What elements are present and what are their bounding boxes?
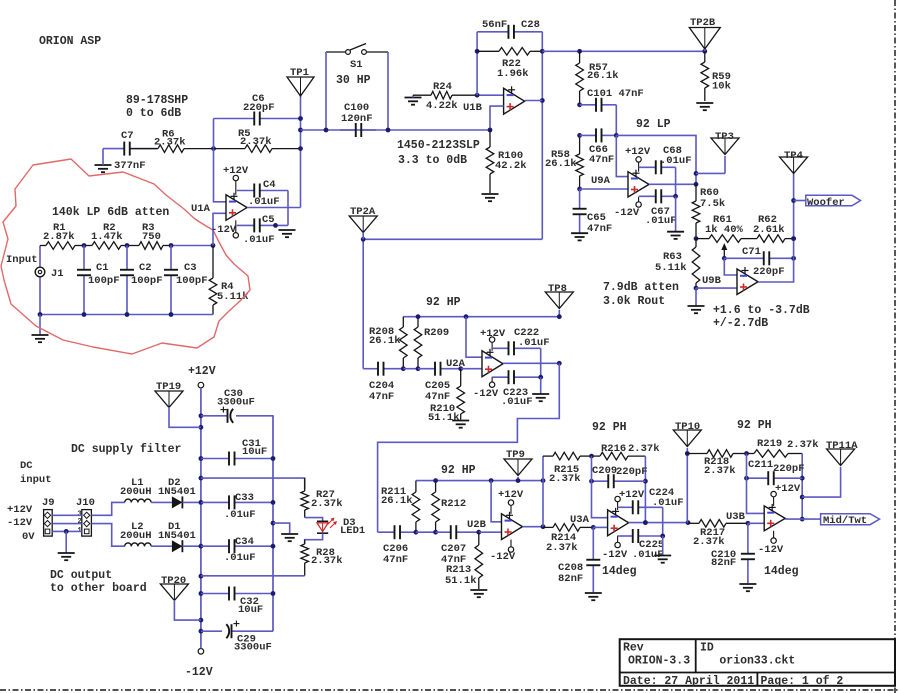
capacitor C222 (492, 327, 549, 355)
svg-text:C34: C34 (235, 536, 254, 548)
svg-text:14deg: 14deg (602, 565, 637, 578)
svg-text:Page: 1 of 2: Page: 1 of 2 (761, 675, 844, 688)
svg-text:750: 750 (142, 231, 161, 243)
label Input (6, 254, 38, 266)
wire C7 ground stem (102, 149, 104, 165)
capacitor C208 (558, 527, 600, 592)
svg-text:Date: 27 April 2011: Date: 27 April 2011 (623, 675, 754, 688)
svg-text:+12V: +12V (775, 483, 801, 495)
connector J10 (76, 497, 95, 536)
diode D1 (158, 521, 196, 552)
inductor L1 (120, 477, 152, 502)
wire +12V column (200, 388, 202, 649)
node TP3 tap (694, 171, 699, 176)
svg-text:200uH: 200uH (120, 530, 152, 542)
svg-text:2.37k: 2.37k (787, 439, 819, 451)
svg-text:R209: R209 (424, 327, 449, 339)
power pin U2A -12V (473, 377, 499, 400)
node C66 left (577, 133, 582, 138)
svg-text:.01uF: .01uF (248, 196, 280, 208)
node U2A plus (458, 366, 463, 371)
junction +12 dist (199, 476, 204, 481)
svg-text:10uF: 10uF (242, 446, 267, 458)
resistor R208 (369, 317, 407, 369)
red hand-drawn highlight circle (1, 159, 250, 354)
label 92 HP second (441, 464, 476, 477)
svg-text:J9: J9 (42, 497, 55, 509)
svg-text:-12V: -12V (185, 666, 213, 679)
node C209 left (589, 479, 594, 484)
resistor R217 (688, 520, 748, 549)
wire R24 gnd stem (412, 95, 414, 97)
svg-text:C71: C71 (742, 246, 761, 258)
node C223 right (538, 375, 543, 380)
resistor R4 (209, 246, 248, 315)
node U9B plus (694, 286, 699, 291)
ground U2A decoupling ground (532, 377, 549, 401)
test point TP20 (160, 575, 188, 601)
label +1.6 to -3.7dB (713, 304, 810, 317)
diode D2 (158, 477, 196, 508)
node C225 right (660, 534, 665, 539)
junction C1 bottom (82, 312, 87, 317)
ground U1A decoupling ground (279, 230, 296, 237)
svg-text:C2: C2 (139, 262, 152, 274)
title ORION ASP (39, 35, 101, 48)
capacitor C1 (77, 246, 120, 315)
power pin U1A -12V (211, 220, 239, 238)
svg-text:U2B: U2B (467, 519, 487, 531)
capacitor C205 (418, 362, 461, 403)
svg-text:30 HP: 30 HP (336, 74, 371, 87)
svg-text:orion33.ckt: orion33.ckt (719, 654, 795, 667)
wire U3B minus (747, 454, 765, 514)
junction U2A minus top (464, 314, 469, 319)
wire U3B plus (748, 522, 764, 524)
output tag Mid/Twt (802, 514, 879, 527)
test point TP19 (155, 381, 183, 408)
node C206-R211 (414, 530, 419, 535)
svg-text:TP2A: TP2A (350, 206, 376, 218)
label +12V rail (7, 504, 33, 516)
svg-text:92 HP: 92 HP (426, 296, 461, 309)
capacitor C210 (711, 523, 755, 583)
title block Page (761, 675, 844, 688)
svg-text:R219: R219 (757, 438, 782, 450)
capacitor C32 (201, 587, 273, 617)
node R62 right (791, 236, 796, 241)
wire right column (272, 416, 274, 631)
power pin U2B -12V (490, 540, 516, 564)
junction S1 right (386, 128, 391, 133)
power pin U2B +12V (498, 489, 524, 514)
ground R63 ground (688, 288, 705, 313)
label DC (20, 460, 33, 472)
svg-text:3300uF: 3300uF (217, 397, 255, 409)
svg-text:2: 2 (78, 518, 82, 526)
svg-text:.01uF: .01uF (645, 215, 677, 227)
capacitor C33 (201, 492, 273, 521)
svg-text:0 to 6dB: 0 to 6dB (126, 107, 181, 120)
power pin U3A -12V (602, 536, 628, 561)
wire J10 to L1 (91, 502, 124, 515)
ground R213 ground (470, 590, 487, 597)
power pin U3B +12V (771, 483, 801, 506)
power pin U2A +12V (480, 328, 506, 351)
wire U1B plus (490, 106, 504, 130)
svg-text:ID: ID (700, 642, 714, 655)
resistor R214 (543, 524, 593, 554)
svg-text:.01uF: .01uF (518, 337, 550, 349)
svg-text:1.47k: 1.47k (91, 231, 123, 243)
power pin U3B -12V (758, 531, 784, 556)
wire TP8 column (558, 310, 560, 317)
terminal +12V top (188, 365, 216, 388)
svg-text:92 PH: 92 PH (592, 421, 627, 434)
svg-text:2.37k: 2.37k (546, 542, 578, 554)
capacitor C30 (201, 388, 274, 423)
junction right column (271, 544, 276, 549)
power pin U1A +12V (223, 165, 249, 195)
svg-text:26.1k: 26.1k (545, 158, 577, 170)
svg-text:51.1k: 51.1k (428, 412, 460, 424)
svg-text:-12V: -12V (602, 549, 628, 561)
wire U1B minus (477, 94, 504, 96)
node R6-R5-C6 (211, 146, 216, 151)
capacitor C100 (340, 102, 376, 137)
node C211 left (744, 476, 749, 481)
wire C68 drop (675, 167, 677, 196)
switch S1 (326, 44, 388, 88)
test point TP9 (504, 449, 532, 476)
svg-text:-12V: -12V (7, 517, 33, 529)
wire J9-J10 0V (52, 530, 82, 532)
wire J10 to L2 (91, 524, 124, 547)
svg-text:C1: C1 (96, 262, 109, 274)
junction C32 left (199, 591, 204, 596)
svg-text:51.1k: 51.1k (445, 575, 477, 587)
wire output bus (542, 50, 705, 52)
label 14deg first (602, 565, 637, 578)
capacitor C3 (164, 246, 208, 315)
node R212 bottom (433, 530, 438, 535)
node main out (298, 128, 303, 133)
ground C210 ground (739, 584, 756, 591)
svg-text:+12V: +12V (223, 165, 249, 177)
svg-text:2.37k: 2.37k (240, 136, 272, 148)
capacitor C67 (639, 189, 677, 227)
label 92 PH second (737, 419, 772, 432)
title block Rev (623, 642, 644, 655)
svg-text:47nF: 47nF (369, 391, 394, 403)
label 89-178SHP (126, 94, 188, 107)
title block ORION-3.3 (628, 654, 690, 667)
svg-text:1N5401: 1N5401 (158, 486, 196, 498)
node TP9 tap (516, 478, 521, 483)
label +/-2.7dB (713, 317, 768, 330)
node U2B plus (476, 530, 481, 535)
svg-text:47nF: 47nF (587, 223, 612, 235)
wire U1B output (525, 100, 543, 102)
output tag Woofer (794, 195, 861, 209)
svg-text:C4: C4 (263, 179, 276, 191)
resistor R2 (84, 222, 127, 249)
svg-text:TP20: TP20 (161, 575, 186, 587)
svg-text:42.2k: 42.2k (495, 160, 527, 172)
wire TP2A stem (362, 233, 364, 240)
label 0V rail (22, 531, 35, 543)
junction C5 output (273, 223, 278, 228)
node R60 bottom (694, 236, 699, 241)
power pin U3A +12V (615, 489, 645, 510)
wire C204 to C205 (403, 368, 418, 370)
ground C65 ground (571, 233, 588, 240)
label 3.3 to 0dB (398, 154, 467, 167)
svg-text:Woofer: Woofer (807, 197, 845, 209)
wire bottom rail (40, 314, 213, 316)
svg-text:TP19: TP19 (156, 381, 181, 393)
svg-text:TP10: TP10 (675, 421, 700, 433)
svg-text:R24: R24 (433, 81, 452, 93)
svg-text:R212: R212 (441, 498, 466, 510)
wire TP19 link (169, 407, 201, 427)
capacitor C71 (724, 246, 793, 278)
wire U9A output (649, 183, 696, 185)
capacitor C223 (492, 370, 541, 408)
wire feedback top U2B (416, 480, 543, 482)
junction U2B minus top (489, 478, 494, 483)
capacitor C224 (618, 487, 684, 514)
test point TP2B (689, 17, 720, 49)
op-amp U2A (446, 349, 503, 377)
wire D2 to node (182, 501, 201, 503)
wire U1B out column (541, 32, 543, 240)
svg-text:TP2B: TP2B (690, 17, 716, 29)
page border bottom edge (0, 689, 900, 691)
power pin U9A +12V (625, 146, 651, 172)
junction R22 right (540, 49, 545, 54)
power pin U9A -12V (614, 197, 641, 219)
capacitor C29 (201, 621, 273, 654)
resistor R6 (131, 129, 214, 153)
capacitor C31 (201, 438, 273, 466)
svg-text:140k LP 6dB atten: 140k LP 6dB atten (52, 206, 169, 219)
wire C224 drop (662, 507, 664, 536)
svg-text:+12V: +12V (625, 146, 651, 158)
label -12V rail (7, 517, 33, 529)
resistor R213 (445, 532, 483, 589)
svg-text:+12V: +12V (480, 328, 506, 340)
junction S1 left (324, 128, 329, 133)
svg-text:7.9dB atten: 7.9dB atten (603, 281, 679, 294)
wire TP3 stem (724, 156, 726, 173)
wire D1 to node (182, 545, 201, 547)
wire plus input U1A (213, 213, 226, 245)
node R216 join (643, 520, 648, 525)
junction C3 bottom (169, 312, 174, 317)
wire U9A plus (580, 188, 628, 190)
resistor R210 (428, 369, 465, 424)
wire L2 to D1 (151, 545, 172, 547)
node C71 right (791, 256, 796, 261)
svg-text:ORION-3.3: ORION-3.3 (628, 654, 690, 667)
label 140k LP 6dB atten (52, 206, 169, 219)
resistor R22 (477, 48, 542, 81)
node R2-R3 (125, 243, 130, 248)
wire C206 to C207 (416, 531, 436, 533)
wire R27 to LED (305, 518, 323, 522)
node R215-R216 (589, 454, 594, 459)
svg-text:1450-2123SLP: 1450-2123SLP (397, 139, 480, 152)
resistor R219 (747, 438, 819, 457)
node riser top (541, 478, 546, 483)
node R209 bottom (416, 366, 421, 371)
svg-text:-12V: -12V (211, 224, 237, 236)
node C67 right (673, 194, 678, 199)
wire U2B minus (491, 481, 501, 522)
node TP11A tap (800, 495, 805, 500)
svg-text:2.87k: 2.87k (43, 231, 75, 243)
wire +12 dist (201, 478, 305, 489)
node C209 right (643, 479, 648, 484)
node R57 top (577, 49, 582, 54)
page border right edge (894, 0, 896, 693)
ground U3A decoupling ground (654, 536, 671, 563)
svg-text:7.5k: 7.5k (700, 198, 725, 210)
svg-text:R216: R216 (601, 443, 626, 455)
wire U2A out to stage2 (378, 363, 560, 532)
wire L1 to D2 (151, 501, 172, 503)
test point TP11A (826, 440, 858, 466)
svg-text:U1A: U1A (191, 203, 211, 215)
resistor R58 (545, 135, 583, 189)
junction R212 top (433, 478, 438, 483)
svg-text:C3: C3 (184, 262, 197, 274)
svg-text:10uF: 10uF (238, 604, 263, 616)
label DC supply filter (71, 443, 182, 456)
node R24-C28 (475, 93, 480, 98)
node U2B output (541, 524, 546, 529)
ground R59 ground (696, 103, 713, 110)
title block ID (700, 642, 714, 655)
title block frame (620, 639, 895, 686)
svg-text:2.37k: 2.37k (693, 536, 725, 548)
node C211 right (800, 476, 805, 481)
node 0V gnd tap (64, 529, 69, 534)
wire R216 drop (644, 456, 646, 522)
resistor R24 (413, 81, 477, 112)
capacitor C207 (436, 525, 479, 566)
node U3B plus (746, 521, 751, 526)
svg-text:2.37k: 2.37k (549, 473, 581, 485)
resistor R27 (301, 478, 343, 517)
node C66 right (614, 133, 619, 138)
svg-text:U3A: U3A (570, 514, 590, 526)
svg-text:220pF: 220pF (753, 266, 785, 278)
capacitor C66 (580, 128, 617, 166)
svg-text:26.1k: 26.1k (369, 335, 401, 347)
wire TP2A link (363, 239, 542, 368)
svg-text:120nF: 120nF (341, 113, 373, 125)
wire TP11A link (802, 467, 840, 497)
svg-text:100pF: 100pF (88, 275, 120, 287)
svg-text:2.37k: 2.37k (704, 465, 736, 477)
svg-text:.01uF: .01uF (652, 497, 684, 509)
svg-text:82nF: 82nF (558, 573, 583, 585)
wire R219 drop (801, 454, 803, 520)
node U3B output (800, 517, 805, 522)
svg-text:C101 47nF: C101 47nF (587, 88, 644, 100)
capacitor C209 (592, 465, 648, 488)
resistor R1 (40, 222, 84, 249)
svg-text:92 PH: 92 PH (737, 419, 772, 432)
svg-text:14deg: 14deg (764, 565, 799, 578)
node R218 tap (685, 451, 690, 456)
svg-text:82nF: 82nF (711, 557, 736, 569)
wire U2A output (503, 362, 559, 364)
wire U2B plus (479, 531, 502, 533)
capacitor C28 (477, 19, 542, 39)
node R3-C3 (169, 243, 174, 248)
resistor R60 (692, 184, 725, 238)
junction C2 bottom (125, 312, 130, 317)
op-amp U3B (726, 504, 785, 531)
junction right column (271, 591, 276, 596)
capacitor C211 (747, 459, 805, 485)
wire C222 drop (540, 348, 542, 377)
wire U3A output (629, 522, 688, 524)
junction right column (271, 521, 276, 526)
title block Date (623, 675, 754, 688)
label 7.9dB atten (603, 281, 679, 294)
svg-text:-12V: -12V (490, 551, 516, 563)
svg-text:4.22k: 4.22k (426, 100, 458, 112)
svg-text:10k: 10k (712, 81, 731, 93)
svg-text:DC output: DC output (50, 569, 112, 582)
wire feedback to output (616, 135, 696, 184)
node R5 right (298, 146, 303, 151)
junction R209 top (416, 314, 421, 319)
junction R22 left (475, 49, 480, 54)
LED D3 (317, 517, 365, 537)
junction right column (271, 500, 276, 505)
svg-text:1k 40%: 1k 40% (705, 224, 744, 236)
svg-text:C209: C209 (592, 465, 617, 477)
svg-text:J1: J1 (51, 268, 64, 280)
svg-text:TP3: TP3 (715, 131, 734, 143)
svg-text:.01uF: .01uF (243, 234, 275, 246)
svg-text:+1.6 to -3.7dB: +1.6 to -3.7dB (713, 304, 810, 317)
svg-text:+12V: +12V (619, 489, 645, 501)
ground U9A decoupling ground (667, 196, 684, 239)
svg-text:input: input (20, 474, 52, 486)
terminal -12V bottom (185, 649, 213, 680)
label 3.0k Rout (603, 295, 665, 308)
svg-text:U2A: U2A (446, 358, 466, 370)
svg-text:Rev: Rev (623, 642, 644, 655)
wire riser (542, 456, 544, 527)
junction TP20 (199, 618, 204, 623)
resistor R209 (414, 317, 449, 369)
resistor R218 (687, 450, 746, 477)
op-amp U1A (191, 193, 247, 221)
wire feedback top U2A (403, 316, 559, 318)
svg-text:377nF: 377nF (114, 160, 146, 172)
svg-text:TP1: TP1 (290, 67, 309, 79)
svg-text:U1B: U1B (463, 102, 483, 114)
node A top of R4 (211, 243, 216, 248)
wire U3A plus (593, 526, 607, 528)
